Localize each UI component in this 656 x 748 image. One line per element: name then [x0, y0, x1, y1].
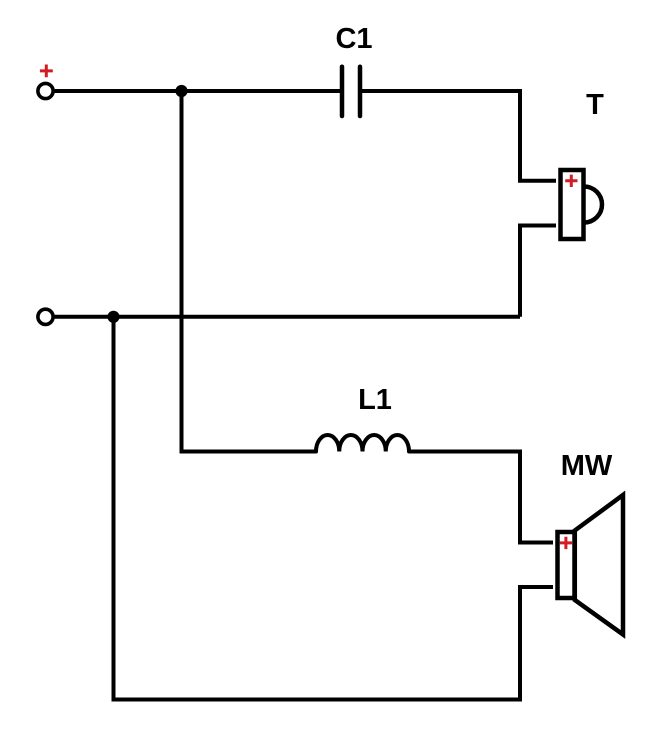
svg-text:MW: MW [561, 450, 613, 482]
svg-text:L1: L1 [358, 384, 392, 416]
svg-text:T: T [586, 89, 604, 121]
svg-text:C1: C1 [335, 23, 372, 55]
